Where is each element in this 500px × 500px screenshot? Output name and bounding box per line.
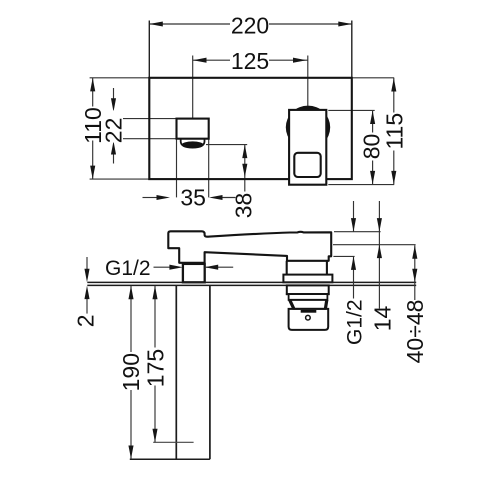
- svg-text:115: 115: [381, 113, 407, 150]
- svg-text:38: 38: [230, 193, 256, 219]
- svg-text:175: 175: [143, 349, 169, 387]
- svg-text:220: 220: [231, 12, 269, 38]
- svg-text:G1/2: G1/2: [344, 299, 367, 345]
- svg-text:G1/2: G1/2: [105, 257, 151, 280]
- svg-text:2: 2: [73, 314, 99, 327]
- svg-text:125: 125: [231, 48, 269, 74]
- svg-text:35: 35: [180, 185, 206, 211]
- svg-text:40÷48: 40÷48: [402, 300, 428, 364]
- svg-text:14: 14: [370, 306, 396, 332]
- svg-text:190: 190: [118, 353, 144, 391]
- svg-text:22: 22: [100, 118, 126, 144]
